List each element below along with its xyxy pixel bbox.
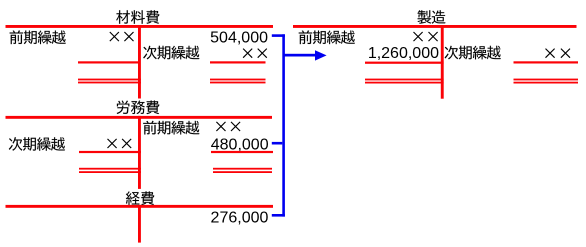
bracket stub from 504,000	[272, 34, 285, 37]
労務費 T-account center rule	[138, 116, 141, 189]
労務費 debit single total rule	[79, 151, 141, 153]
経費 T-account center rule	[138, 205, 141, 243]
製造 debit amount ××	[414, 32, 423, 41]
製造 credit amount ××	[546, 49, 555, 58]
bracket stub from 480,000	[272, 142, 283, 145]
材料費 debit single total rule	[78, 61, 139, 63]
労務費 credit single total rule	[211, 151, 273, 153]
材料費 T-account center rule	[138, 25, 141, 99]
材料費 credit label 次期繰越 (balance c/f)	[143, 46, 157, 60]
材料費 T-account top rule	[6, 25, 274, 28]
材料費 debit amount ××	[110, 32, 119, 41]
製造 credit double closing rule	[514, 79, 579, 81]
account title 労務費 (Labor cost)	[117, 101, 130, 115]
労務費 debit label 次期繰越	[9, 137, 23, 151]
transfer bracket vertical wire	[282, 34, 285, 216]
労務費 debit amount ××	[108, 139, 117, 148]
transfer arrow head	[315, 50, 327, 60]
労務費 credit amount ××	[216, 122, 225, 131]
svg-text:276,000: 276,000	[211, 209, 269, 226]
account title 材料費 (Materials cost)	[116, 10, 130, 24]
労務費 credit double closing rule	[213, 168, 272, 170]
製造 debit label 前期繰越	[299, 30, 313, 44]
製造 debit double closing rule	[365, 79, 444, 81]
製造 debit single total rule	[365, 62, 444, 64]
bracket stub from 276,000	[272, 214, 285, 217]
account title 経費 (Expenses)	[126, 191, 140, 205]
経費 T-account top rule	[6, 205, 274, 208]
transfer arrow shaft into 製造	[283, 54, 315, 57]
製造 credit label 次期繰越	[445, 46, 459, 60]
製造 T-account top rule	[293, 25, 577, 28]
労務費 T-account top rule	[6, 116, 273, 119]
account title 製造 (Manufacturing)	[418, 10, 432, 24]
材料費 debit label 前期繰越 (balance b/f)	[10, 30, 23, 44]
労務費 credit label 前期繰越	[143, 121, 157, 135]
製造 credit single total rule	[514, 61, 579, 63]
svg-text:504,000: 504,000	[210, 30, 268, 47]
労務費 debit double closing rule	[79, 168, 141, 170]
材料費 credit double closing rule	[210, 79, 266, 81]
製造 T-account center rule	[441, 25, 444, 99]
材料費 credit amount ××	[243, 49, 252, 58]
材料費 credit single total rule	[210, 61, 266, 63]
材料費 debit double closing rule	[78, 79, 141, 81]
svg-text:1,260,000: 1,260,000	[368, 45, 439, 62]
